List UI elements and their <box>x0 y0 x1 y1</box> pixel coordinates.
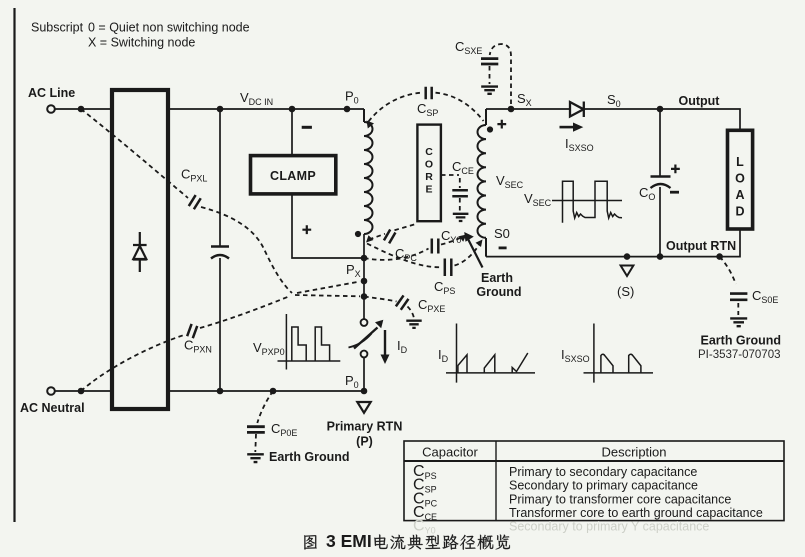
junction at AC Neutral / C_PXN tap <box>78 388 85 395</box>
svg-text:(S): (S) <box>617 284 634 299</box>
dashed path C_PXL from AC Line <box>81 109 188 198</box>
table of capacitor descriptions <box>404 441 784 536</box>
capacitor C_CE plates <box>452 190 468 196</box>
wire: secondary top rail to output <box>486 109 740 130</box>
node AC Line terminal <box>47 105 55 113</box>
diode D1 output <box>570 102 584 118</box>
ground below C_CE <box>453 214 469 221</box>
svg-text:Transformer core to earth grou: Transformer core to earth ground capacit… <box>509 506 763 520</box>
primary RTN triangle <box>357 402 370 413</box>
svg-text:Secondary to primary capacitan: Secondary to primary capacitance <box>509 479 698 493</box>
switch arc <box>349 334 372 348</box>
current arrow I_D <box>384 330 386 356</box>
label minus secondary <box>499 246 507 249</box>
capacitor C_PC plates <box>384 229 395 243</box>
svg-text:Earth: Earth <box>481 271 513 285</box>
ground below C_PXE <box>406 321 421 328</box>
capacitor C_S0E plates <box>730 294 747 300</box>
label plus C_O <box>671 165 680 174</box>
node P0 top <box>344 106 351 113</box>
dashed path C_PC <box>369 224 418 240</box>
svg-text:O: O <box>735 172 745 186</box>
capacitor C_PXN plates <box>187 324 197 338</box>
transformer primary winding <box>364 109 373 234</box>
svg-text:PI-3537-070703: PI-3537-070703 <box>698 349 780 361</box>
svg-text:Output: Output <box>679 94 721 108</box>
wire: output RTN rail <box>486 229 740 257</box>
svg-text:Primary to transformer core ca: Primary to transformer core capacitance <box>509 492 731 506</box>
ground below C_SXE <box>481 87 498 94</box>
svg-text:Earth Ground: Earth Ground <box>269 450 350 464</box>
junction (S) tap <box>624 253 631 260</box>
junction C_O top <box>657 106 664 113</box>
ground below C_S0E <box>730 318 747 326</box>
wire: bulk cap branch x=220 <box>219 109 221 391</box>
dashed path C_S0E <box>720 257 736 284</box>
capacitor C_PS plates <box>445 259 452 277</box>
arrowhead C_PS at secondary <box>476 240 483 248</box>
svg-text:Output RTN: Output RTN <box>666 239 736 253</box>
switch blade with arrow <box>354 328 378 349</box>
svg-text:3 EMI: 3 EMI <box>326 531 372 551</box>
waveform V_PXP0 <box>278 314 341 370</box>
transformer secondary winding <box>478 109 487 257</box>
bridge rectifier B1 box <box>112 90 168 409</box>
svg-text:0 = Quiet non switching node: 0 = Quiet non switching node <box>88 21 250 35</box>
dashed arc C_SP primary to secondary <box>369 93 422 122</box>
svg-text:Primary to secondary capacitan: Primary to secondary capacitance <box>509 465 697 479</box>
diode inside bridge <box>133 232 147 272</box>
switch Q1 bottom contact <box>361 351 368 358</box>
svg-text:L: L <box>736 155 744 169</box>
left page border rule <box>13 8 15 522</box>
svg-text:S0: S0 <box>494 226 510 241</box>
wire: AC Neutral bottom rail <box>55 390 364 392</box>
capacitor C_PXE plates <box>396 295 409 309</box>
dashed path C_P0E <box>257 391 273 423</box>
capacitor C_Y0 plates <box>432 239 439 254</box>
wire: primary to switch <box>363 234 365 391</box>
label LOAD <box>735 155 745 219</box>
clamp box U1 <box>251 156 336 194</box>
label minus C_O <box>670 191 679 194</box>
arrowhead of C_SP path at primary <box>367 121 375 129</box>
wire: output cap branch <box>659 109 661 257</box>
svg-text:E: E <box>425 183 432 195</box>
ground below C_P0E <box>247 454 264 462</box>
wire: AC Line top rail <box>55 108 364 110</box>
arrow from Earth Ground label to ground under C_CE <box>468 239 483 268</box>
junction C_P0E tap <box>270 388 277 395</box>
svg-text:CLAMP: CLAMP <box>270 169 316 183</box>
svg-text:Description: Description <box>601 445 666 460</box>
node AC Neutral terminal <box>47 387 55 395</box>
junction at AC Line / C_PXL tap <box>78 106 85 113</box>
node P0 bottom / primary RTN <box>361 388 368 395</box>
dashed path C_PXE <box>364 297 397 302</box>
secondary winding phasing dot <box>487 126 493 132</box>
junction clamp top <box>289 106 296 113</box>
dashed path C_PS <box>367 244 442 268</box>
transformer core box <box>417 125 441 222</box>
svg-text:Ground: Ground <box>476 285 521 299</box>
svg-text:AC Line: AC Line <box>28 86 75 100</box>
current arrow I_SXSO <box>560 126 576 129</box>
dashed path C_PXN from AC Neutral <box>81 335 184 391</box>
load box <box>728 130 753 229</box>
svg-text:Earth Ground: Earth Ground <box>701 334 782 348</box>
arrowhead C_PC at primary hub <box>366 235 374 242</box>
svg-text:A: A <box>735 188 744 202</box>
svg-text:O: O <box>425 159 433 171</box>
waveform I_SXSO <box>584 324 654 383</box>
svg-text:Primary RTN: Primary RTN <box>327 420 403 434</box>
label plus clamp <box>302 225 311 234</box>
svg-text:R: R <box>425 171 433 183</box>
capacitor C_P0E plates <box>247 427 265 433</box>
label plus secondary <box>497 120 506 129</box>
switch Q1 top contact <box>361 319 368 326</box>
label minus clamp <box>302 126 312 129</box>
capacitor C_PXL plates <box>189 195 201 209</box>
primary winding phasing dot <box>355 231 361 237</box>
junction bulk cap bottom <box>217 388 224 395</box>
capacitor C_SXE plates <box>481 59 498 64</box>
junction C_O bottom <box>657 253 664 260</box>
junction C_S0E tap <box>716 253 723 260</box>
svg-text:(P): (P) <box>356 435 373 449</box>
waveform V_SEC <box>552 181 622 223</box>
arrowhead C_Y0 at ground <box>459 235 467 242</box>
svg-text:D: D <box>735 205 744 219</box>
dashed path C_CE from core <box>441 175 460 212</box>
svg-text:C: C <box>425 146 433 158</box>
dashed path C_SXE from S_X <box>490 44 511 104</box>
svg-text:AC Neutral: AC Neutral <box>20 401 85 415</box>
junction bulk cap top <box>217 106 224 113</box>
caption: 图 3 EMI 电流典型路径概览 <box>304 535 317 549</box>
waveform I_D <box>446 324 535 383</box>
svg-text:Secondary to primary Y capacit: Secondary to primary Y capacitance <box>509 520 709 534</box>
svg-text:Capacitor: Capacitor <box>422 445 478 460</box>
capacitor C_O <box>651 177 671 189</box>
node SX <box>508 106 515 113</box>
svg-text:X = Switching node: X = Switching node <box>88 36 195 50</box>
wire: clamp branch <box>292 109 364 258</box>
label CORE <box>425 146 433 195</box>
capacitor C_SP plates <box>426 87 432 100</box>
dashed path C_Y0 <box>364 249 429 260</box>
dashed wire hub to P_X node dots <box>295 295 360 296</box>
node PX dashed tap upper <box>361 278 368 285</box>
secondary (S) triangle <box>621 266 634 277</box>
node PX clamp return <box>361 255 368 262</box>
svg-text:Subscript: Subscript <box>31 21 84 35</box>
capacitor: bulk cap on x=220 <box>211 247 229 259</box>
node PX dashed tap lower / C_PXE tap <box>361 293 368 300</box>
